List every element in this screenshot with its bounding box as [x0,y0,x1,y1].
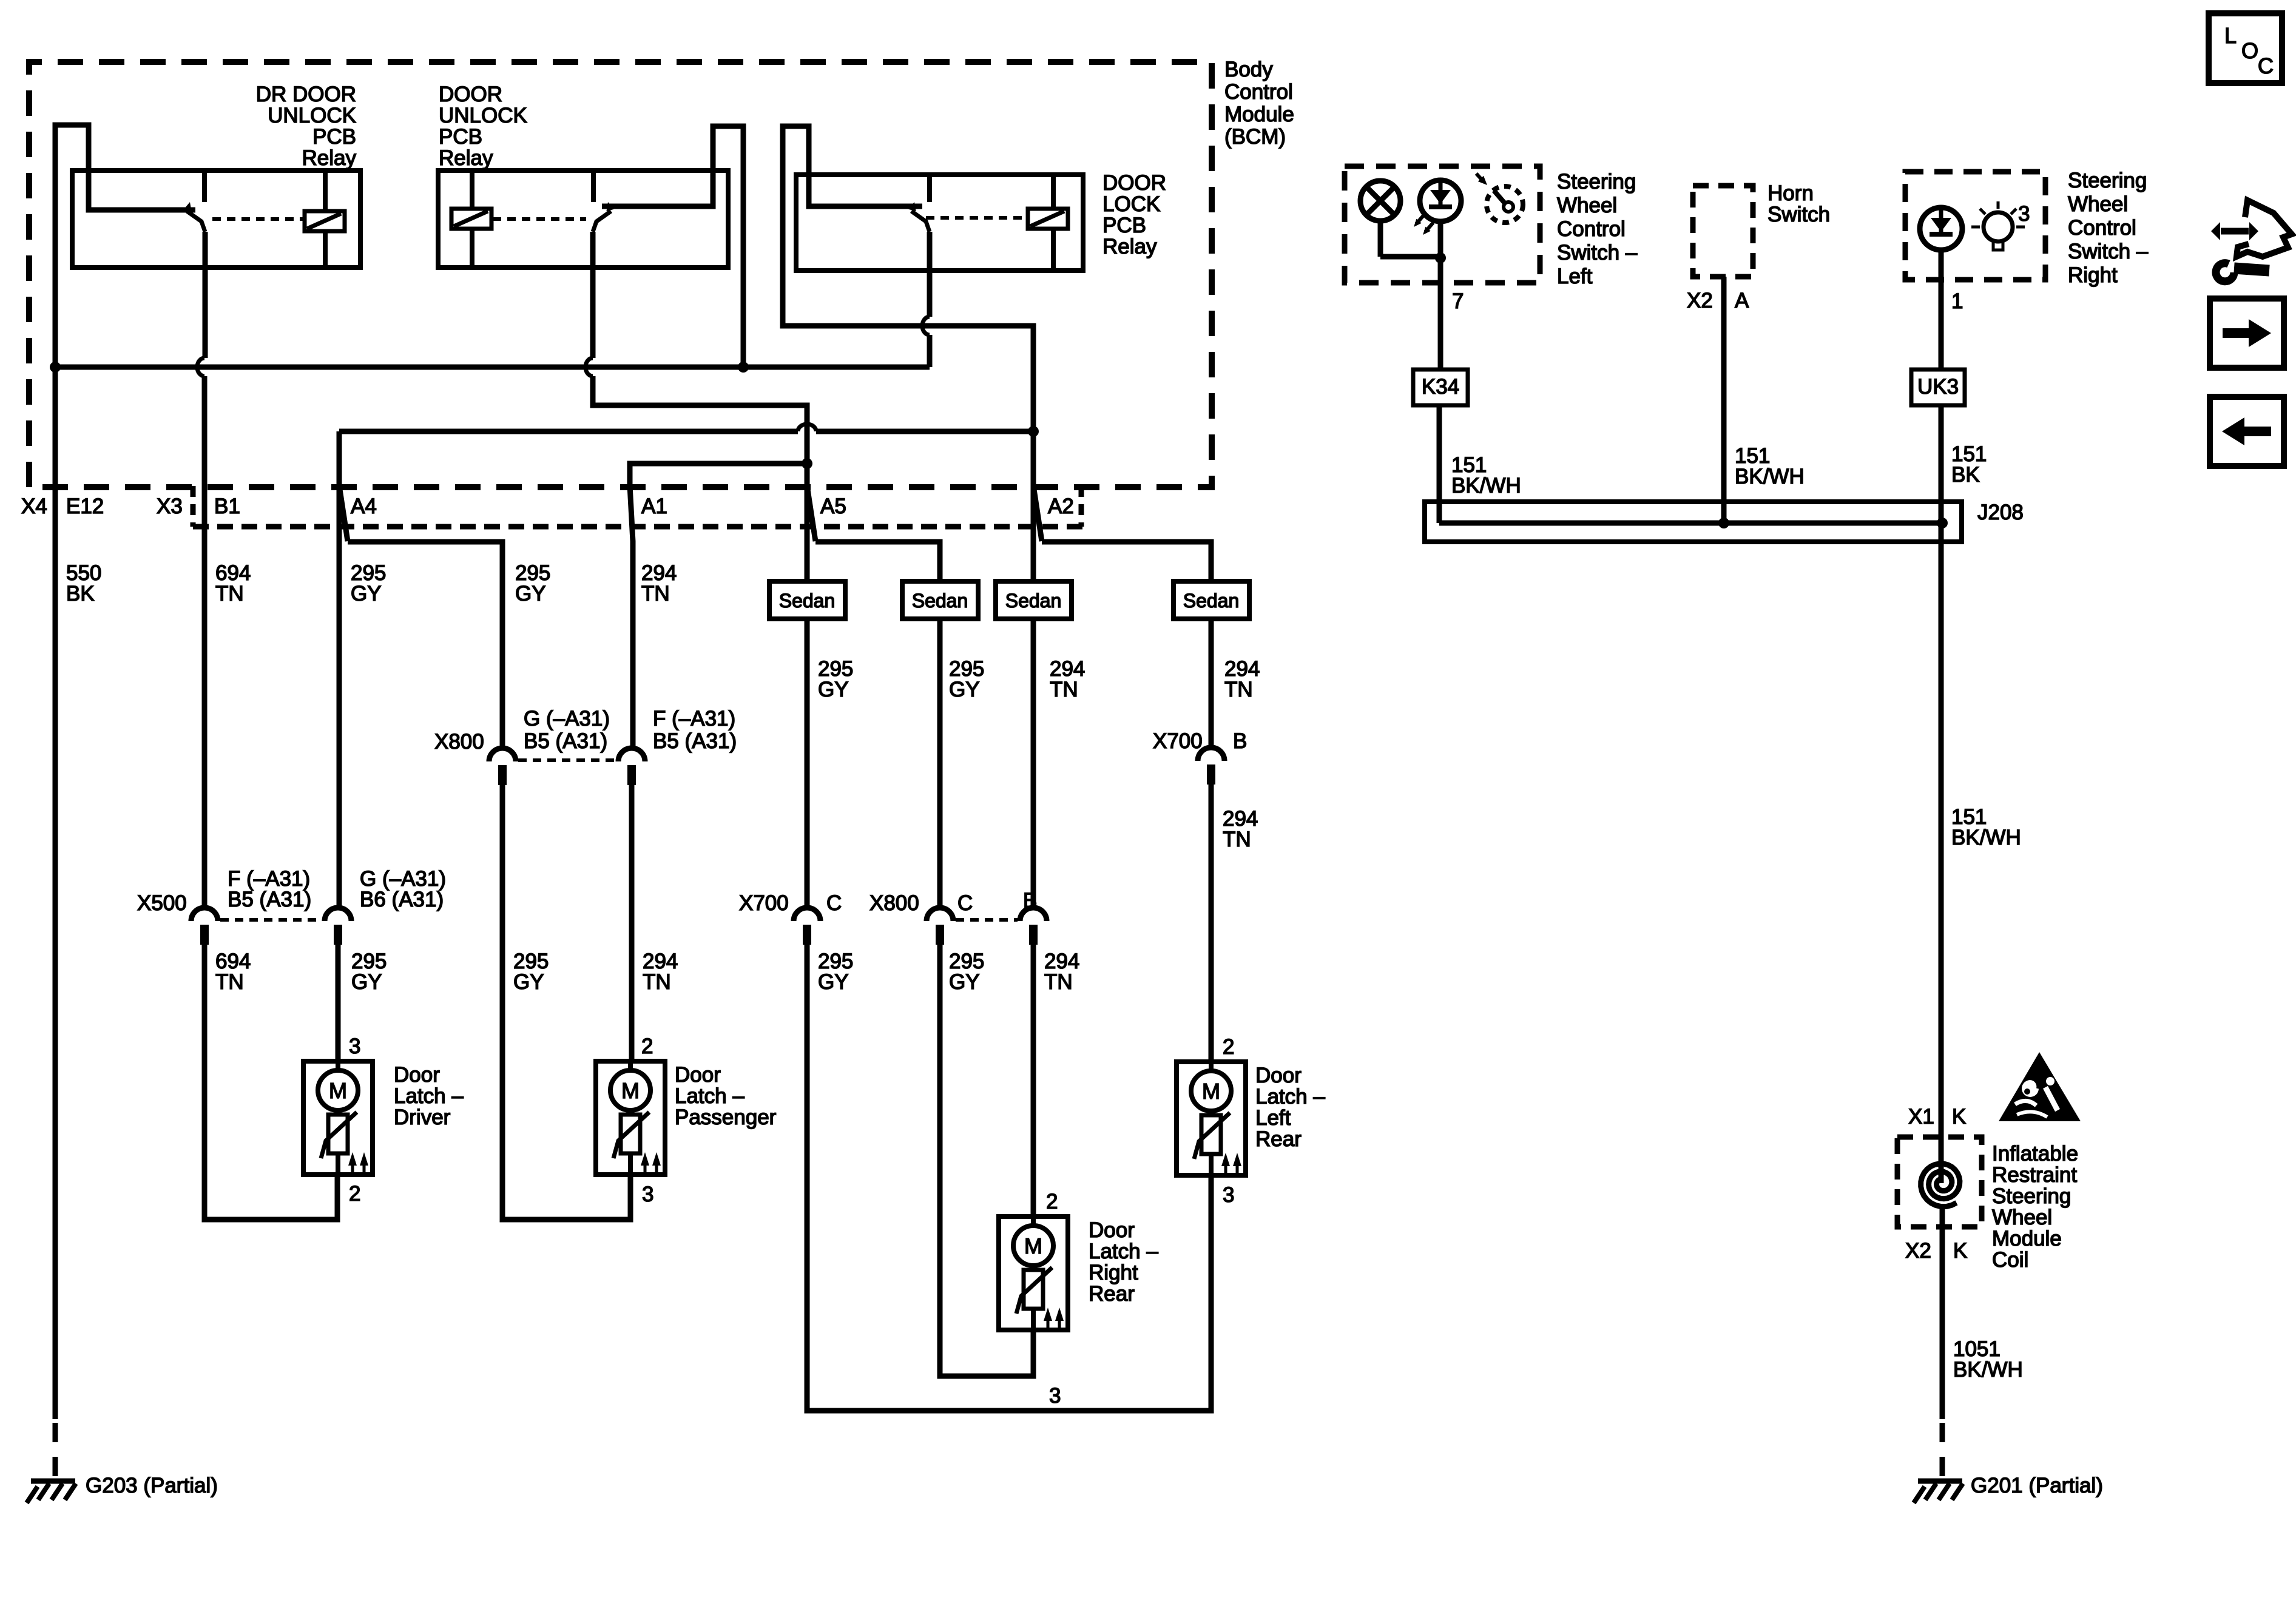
wires in left switch [1378,221,1383,257]
wire: pin 1 to UK3 [1939,250,1944,370]
svg-text:UNLOCK: UNLOCK [268,104,356,127]
svg-text:2: 2 [641,1034,653,1058]
splice pack J208 box [1425,502,1962,542]
svg-text:Body: Body [1224,58,1273,81]
svg-text:Relay: Relay [439,146,493,170]
svg-text:TN: TN [1224,678,1253,701]
svg-text:GY: GY [513,970,544,994]
relay 1 switch arm [187,211,205,232]
svg-text:Latch –: Latch – [1255,1085,1325,1109]
icon right arrow box [2210,299,2284,368]
svg-text:Wheel: Wheel [1992,1206,2052,1229]
svg-text:BK/WH: BK/WH [1951,826,2021,849]
wire: UK3 down through splice to coil [1939,405,1944,1137]
icon LOC box [2209,13,2282,83]
svg-text:X4: X4 [21,494,47,518]
svg-text:Rear: Rear [1255,1127,1302,1151]
svg-text:Relay: Relay [302,146,357,170]
wire: X800 F to Passenger pin 2 [629,781,635,1061]
relay K: DR DOOR UNLOCK PCB Relay box [72,170,360,268]
svg-text:F (–A31): F (–A31) [653,707,735,731]
svg-text:B6 (A31): B6 (A31) [360,888,444,911]
svg-text:Module: Module [1224,103,1294,126]
svg-text:UNLOCK: UNLOCK [439,104,527,127]
LED light arrows [1416,215,1424,224]
airbag warning triangle [1999,1052,2081,1121]
icon left arrow box [2210,397,2284,466]
relay 3 pivot wire down to 605 rail with hop at 537 [927,232,933,317]
svg-text:M: M [1024,1234,1042,1258]
svg-text:Control: Control [2068,216,2136,240]
svg-text:Right: Right [2068,263,2118,287]
svg-text:Steering: Steering [1557,170,1636,194]
option box Sedan3 [996,581,1072,619]
svg-text:X700: X700 [1153,729,1203,753]
svg-text:X3: X3 [157,494,183,518]
svg-text:3: 3 [349,1034,360,1058]
wire: K34 to splice rail [1437,405,1442,523]
wire: 694 TN from X500 F loop to Driver pin 2 [204,945,337,1220]
svg-text:Coil: Coil [1992,1248,2028,1272]
wire: Sedan2 to X800 C, to Right Rear pin 3 [937,619,943,908]
svg-text:B1: B1 [214,494,240,518]
svg-text:Module: Module [1992,1227,2062,1250]
svg-text:Wheel: Wheel [2068,192,2128,216]
svg-text:GY: GY [949,970,980,994]
wire: pin 7 to K34 [1438,283,1443,370]
relay 2 switch arm [593,211,611,232]
svg-text:B5 (A31): B5 (A31) [524,729,607,753]
wire: Sedan4 to X700 B, to Left Rear pin 2 [1209,619,1214,748]
svg-text:TN: TN [215,582,244,606]
svg-text:BK: BK [66,582,95,606]
svg-text:A1: A1 [641,494,667,518]
connector X500 pin G [325,908,351,921]
motor M: Door Latch Left Rear [1177,1062,1246,1175]
bulb symbol in right switch [1984,212,2013,241]
svg-text:2: 2 [349,1182,360,1206]
svg-text:GY: GY [351,970,382,994]
svg-text:Sedan: Sedan [779,590,836,612]
svg-text:Latch –: Latch – [1089,1240,1158,1263]
svg-text:G (–A31): G (–A31) [524,707,610,731]
svg-text:E12: E12 [66,494,104,518]
svg-text:Control: Control [1224,80,1293,104]
connector X800 C-B dashed link [956,918,1018,922]
connector X500 pin F [191,908,218,921]
svg-text:K: K [1952,1105,1966,1129]
svg-text:M: M [621,1078,640,1103]
svg-text:Latch –: Latch – [394,1084,464,1108]
wire: coil to G201 [1940,1207,1945,1419]
svg-text:K34: K34 [1422,375,1459,399]
svg-text:DOOR: DOOR [439,83,502,106]
svg-text:X1: X1 [1908,1105,1934,1129]
svg-text:B5 (A31): B5 (A31) [228,888,311,911]
svg-text:Relay: Relay [1102,235,1157,258]
connector X800 G-F dashed link [518,758,615,762]
ground G203 (Partial) [31,1479,75,1484]
fuse UK3 box [1911,370,1965,405]
svg-text:Passenger: Passenger [675,1105,777,1129]
relay K: DOOR UNLOCK PCB Relay box [438,170,728,268]
svg-text:C: C [826,891,842,915]
svg-text:GY: GY [818,970,849,994]
connector X800 pin F [618,748,645,761]
svg-text:L: L [2224,23,2237,48]
relay 3 fixed contact [927,175,932,202]
svg-text:TN: TN [1223,828,1251,851]
relay 2 coil [470,170,474,209]
relay 2 coil link dashed [493,217,586,221]
wire: 711 rail A4 to A2 with hop over A5 [339,429,798,434]
node junction dot A2/711 rail [1028,426,1039,437]
svg-text:Steering: Steering [1992,1184,2071,1208]
relay 3 coil [1051,175,1056,209]
svg-text:TN: TN [643,970,671,994]
svg-text:GY: GY [515,582,546,606]
svg-text:GY: GY [818,678,849,701]
relay 3 switch arm [911,211,930,232]
svg-text:Switch: Switch [1768,203,1830,226]
node junction dots in splice [1718,518,1729,528]
connector X3 inner dashed row [193,524,1082,530]
motor M: Door Latch Passenger [596,1061,665,1175]
coil spiral [1921,1164,1960,1207]
coil: Inflatable Restraint Steering Wheel Module Coil dashed box [1897,1137,1982,1227]
svg-text:Sedan: Sedan [1005,590,1062,612]
switch S: Steering Wheel Control Switch Right dashed box [1905,172,2045,280]
svg-text:B: B [1023,889,1037,913]
svg-text:Rear: Rear [1089,1282,1135,1306]
svg-text:TN: TN [641,582,670,606]
svg-text:X800: X800 [434,730,484,754]
wire: 550BK main with input stub into relay 1 [55,125,195,1419]
switch S: Steering Wheel Control Switch Left dashed box [1345,166,1540,283]
svg-text:Latch –: Latch – [675,1084,745,1108]
wire: A1 branch to X800 pin F [630,464,807,748]
svg-text:Restraint: Restraint [1992,1163,2077,1187]
svg-text:A: A [1735,289,1749,312]
svg-text:PCB: PCB [439,125,482,149]
motor M: Door Latch Driver [303,1061,373,1175]
relay 2 fixed contact [591,170,596,202]
svg-text:DR DOOR: DR DOOR [256,83,356,106]
svg-text:M: M [329,1078,347,1103]
svg-text:7: 7 [1452,289,1464,313]
connector X800 pin C [927,908,953,921]
svg-text:Horn: Horn [1768,181,1814,205]
svg-text:C: C [957,891,973,915]
relay 1 coil link dashed [212,217,303,221]
svg-text:BK/WH: BK/WH [1735,465,1805,488]
svg-text:2: 2 [1223,1035,1234,1059]
svg-text:3: 3 [642,1183,653,1206]
relay 2 pivot wire down, right to A5 [590,232,596,358]
svg-text:B5 (A31): B5 (A31) [653,729,737,753]
svg-text:X500: X500 [137,891,187,915]
svg-text:Left: Left [1255,1106,1291,1130]
svg-text:Door: Door [394,1063,440,1087]
svg-text:GY: GY [351,582,382,606]
connector X700 pin B [1198,748,1224,761]
fuse K34 box [1413,370,1468,405]
svg-text:Door: Door [1255,1064,1302,1087]
svg-text:A4: A4 [351,494,377,518]
svg-text:X800: X800 [869,891,919,915]
wire: A5 slant branch to Sedan2 [807,485,940,581]
connector X800 pin B [1020,908,1047,921]
wire: splice internal rail [1439,521,1942,526]
svg-text:A5: A5 [820,494,846,518]
svg-text:X2: X2 [1687,289,1713,312]
svg-text:2: 2 [1046,1190,1058,1213]
svg-text:Switch –: Switch – [2068,240,2149,263]
relay 3 NC wire loop to 537 rail and A2 [783,126,1033,581]
svg-text:Inflatable: Inflatable [1992,1142,2078,1166]
LED symbol in left switch [1420,180,1461,221]
relay 1 fixed contact [202,170,207,202]
wire: A2 slant branch to Sedan4 [1033,485,1211,581]
svg-text:Wheel: Wheel [1557,194,1617,217]
gauge symbol in left switch [1487,186,1523,223]
svg-text:G203 (Partial): G203 (Partial) [86,1474,218,1497]
svg-text:(BCM): (BCM) [1224,125,1286,149]
svg-text:3: 3 [1223,1183,1234,1207]
wire into spiral [1939,1137,1944,1183]
wire: Sedan1 to X700 C, to Left Rear pin 3 [805,619,810,908]
wire: A4 slant branch to X800 pin G [339,485,502,748]
svg-text:GY: GY [949,678,980,701]
wire: 550BK dashed to ground [53,1423,58,1477]
connector X500 dashed link [220,918,322,922]
connector X800 pin G [489,748,516,761]
relay 1 pivot wire down to B1 with hop at 605 [203,232,208,358]
svg-text:B: B [1233,729,1247,753]
svg-text:A2: A2 [1048,494,1074,518]
option box Sedan4 [1173,581,1249,619]
node junction dots on 605 rail [50,362,61,373]
svg-text:TN: TN [215,970,244,994]
wire: horn switch to splice rail [1721,277,1727,523]
svg-text:M: M [1202,1079,1220,1104]
svg-text:TN: TN [1044,970,1073,994]
svg-text:UK3: UK3 [1917,375,1959,399]
option box Sedan2 [902,581,978,619]
wire: 295 GY X500 G to Driver pin 3 [336,945,341,1061]
svg-text:Door: Door [1089,1218,1135,1242]
wire: Sedan3 to X800 B, to Right Rear pin 2 [1031,619,1036,908]
svg-text:Sedan: Sedan [1183,590,1240,612]
svg-text:PCB: PCB [1102,214,1146,237]
svg-text:BK/WH: BK/WH [1451,474,1521,498]
svg-text:PCB: PCB [312,125,356,149]
motor M: Door Latch Right Rear [999,1217,1068,1330]
svg-text:DOOR: DOOR [1102,171,1166,195]
node junction dot A5/A1 [802,458,812,469]
relay 1 coil [323,170,328,211]
wire: X800 G down, loop to Passenger pin 3 [502,781,630,1220]
svg-text:BK/WH: BK/WH [1953,1358,2023,1382]
relay 2 NC contact wire loop over box [602,126,743,367]
svg-text:J208: J208 [1977,501,2024,524]
svg-text:Control: Control [1557,217,1626,241]
svg-text:1: 1 [1951,289,1963,313]
svg-text:X700: X700 [739,891,789,915]
ground G201 (Partial) [1918,1479,1962,1484]
svg-text:Right: Right [1089,1261,1138,1284]
connector X700 pin C [794,908,820,921]
svg-text:Switch –: Switch – [1557,241,1638,265]
svg-text:3: 3 [1049,1384,1061,1408]
svg-text:3: 3 [2018,202,2030,226]
svg-text:X2: X2 [1905,1239,1931,1263]
svg-text:Left: Left [1557,265,1593,288]
relay 3 coil link dashed [926,216,1025,220]
lamp symbol in left switch [1360,181,1400,221]
svg-text:C: C [2258,53,2274,78]
wire: 605 rail [55,365,930,370]
svg-text:K: K [1953,1239,1967,1263]
svg-text:TN: TN [1050,678,1078,701]
svg-text:O: O [2241,38,2258,63]
option box Sedan1 [769,581,845,619]
svg-text:Driver: Driver [394,1105,451,1129]
icon hand with arrows and wrench [2221,228,2249,235]
svg-text:Door: Door [675,1063,721,1087]
svg-text:Steering: Steering [2068,169,2147,192]
svg-text:BK: BK [1951,463,1980,487]
svg-text:Sedan: Sedan [912,590,968,612]
wire: A4 main down to X500 G [337,431,342,908]
svg-text:G201 (Partial): G201 (Partial) [1971,1474,2103,1497]
Body Control Module (BCM) dashed boundary [29,62,1212,487]
switch S: Horn Switch dashed box [1693,186,1753,277]
relay K: DOOR LOCK PCB Relay box [796,175,1083,271]
LED symbol in right switch [1920,208,1962,250]
svg-text:LOCK: LOCK [1102,192,1160,216]
